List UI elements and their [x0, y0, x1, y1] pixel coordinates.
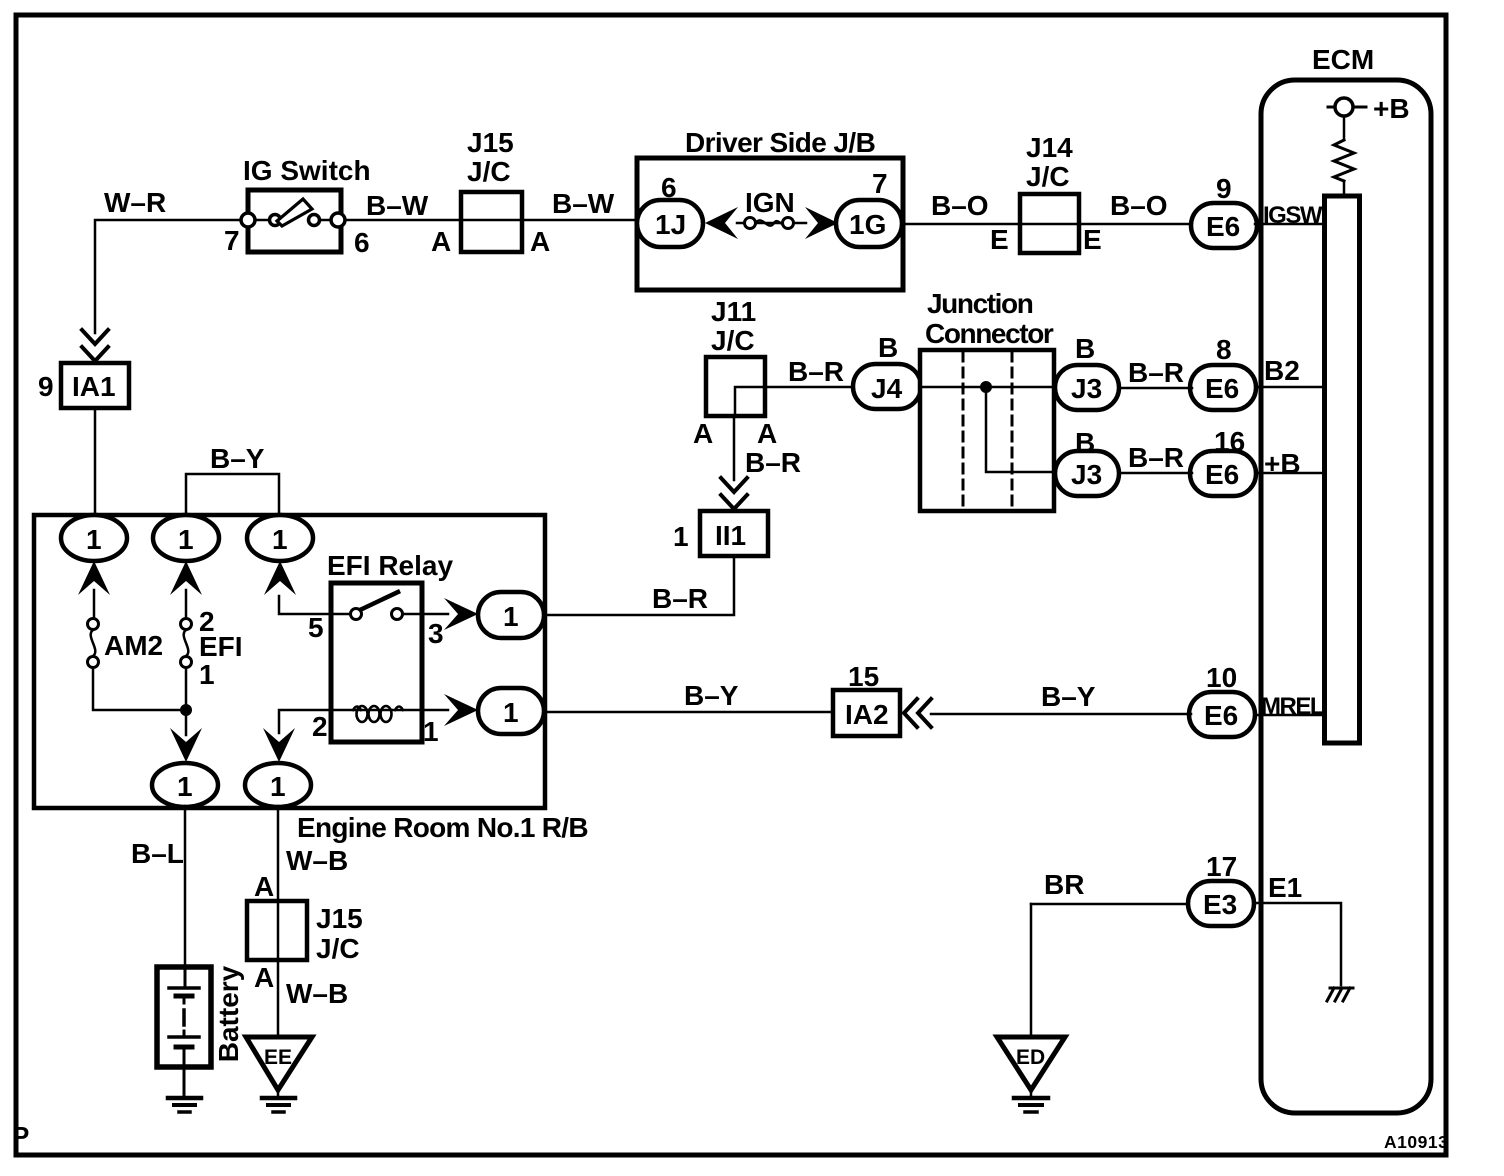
arrow right at 1G — [805, 207, 838, 239]
wire B-O 1G to J14 to E6 — [902, 223, 1192, 226]
connector oval 1 bottom-left — [152, 763, 218, 807]
connector oval 1 top-left — [61, 515, 127, 561]
wire through J15 bottom — [277, 901, 280, 960]
svg-text:B–Y: B–Y — [684, 680, 739, 711]
svg-text:1: 1 — [673, 521, 689, 552]
fuse IGN circle right — [783, 218, 794, 229]
svg-text:15: 15 — [848, 661, 879, 692]
svg-text:1: 1 — [503, 697, 519, 728]
svg-text:IGSW: IGSW — [1263, 202, 1323, 229]
relay switch wire right — [403, 613, 420, 616]
junction node dot — [180, 704, 192, 716]
svg-text:B–R: B–R — [652, 583, 708, 614]
G-TOPEND — [997, 44, 1431, 1113]
junction node dot — [980, 381, 992, 393]
wire BR from E3 to ED drop — [1031, 903, 1188, 906]
svg-text:B–R: B–R — [788, 356, 844, 387]
svg-text:B: B — [1075, 333, 1095, 364]
svg-text:E6: E6 — [1204, 700, 1238, 731]
battery plate long 1 — [169, 986, 199, 990]
arrow up into oval relay — [264, 561, 296, 595]
svg-text:6: 6 — [354, 227, 370, 258]
svg-text:B–W: B–W — [552, 188, 615, 219]
connector J4 oval — [853, 364, 921, 409]
Engine Room No.1 R/B box — [34, 515, 545, 808]
Junction Connector box — [920, 350, 1054, 511]
IG switch terminal 6 circle — [331, 213, 345, 227]
svg-text:B–O: B–O — [931, 190, 989, 221]
svg-text:AM2: AM2 — [104, 630, 163, 661]
wire AM2 bottom to junction — [93, 668, 186, 710]
connector oval 1 bottom-right — [245, 763, 311, 807]
connector oval 1 right-top — [478, 592, 544, 638]
connector E3 pin 17 oval — [1188, 881, 1254, 926]
svg-text:J4: J4 — [871, 373, 903, 404]
svg-text:J14: J14 — [1026, 132, 1073, 163]
svg-text:IA2: IA2 — [845, 699, 889, 730]
svg-text:A: A — [530, 226, 550, 257]
svg-text:ED: ED — [1016, 1046, 1045, 1069]
svg-text:1: 1 — [503, 601, 519, 632]
svg-text:1: 1 — [178, 524, 194, 555]
wire B-Y to E6-10 — [931, 713, 1191, 716]
fuse EFI circle bottom — [181, 657, 192, 668]
wire E1 to internal ground — [1254, 903, 1341, 985]
svg-text:P: P — [12, 1121, 29, 1151]
svg-text:7: 7 — [872, 168, 888, 199]
chassis ground hatch inside ECM — [1327, 988, 1353, 1001]
svg-text:B–O: B–O — [1110, 190, 1168, 221]
connector J3 bottom oval — [1055, 451, 1119, 496]
svg-text:3: 3 — [428, 618, 444, 649]
svg-text:Driver Side J/B: Driver Side J/B — [685, 127, 875, 158]
svg-text:B–R: B–R — [745, 447, 801, 478]
svg-text:B–W: B–W — [366, 190, 429, 221]
resistor inside ECM — [1334, 140, 1354, 181]
svg-text:E1: E1 — [1268, 872, 1302, 903]
connector 1G oval — [836, 200, 902, 247]
svg-text:B–Y: B–Y — [1041, 681, 1096, 712]
svg-text:B: B — [1075, 427, 1095, 458]
svg-text:J15: J15 — [316, 903, 363, 934]
svg-text:E6: E6 — [1205, 373, 1239, 404]
wire resistor to bar — [1343, 181, 1346, 196]
svg-text:B–L: B–L — [131, 838, 184, 869]
connector J3 top oval — [1055, 365, 1119, 410]
J15 J/C box (bottom) — [247, 901, 307, 960]
svg-text:A: A — [254, 871, 274, 902]
svg-text:E3: E3 — [1203, 889, 1237, 920]
svg-text:17: 17 — [1206, 851, 1237, 882]
svg-text:B–R: B–R — [1128, 357, 1184, 388]
fuse AM2 wire top — [93, 590, 96, 619]
ground bars under EE — [277, 1090, 280, 1096]
wire +B16 pin — [1255, 472, 1322, 475]
connector II1 box — [700, 511, 768, 556]
wire pin3 to arrow — [422, 613, 448, 616]
connector E6 pin 9 oval — [1191, 203, 1257, 248]
wire B-L oval to battery — [184, 806, 187, 968]
svg-text:W–B: W–B — [286, 845, 348, 876]
connector oval 1 top-mid — [153, 515, 219, 561]
svg-text:Junction: Junction — [927, 288, 1033, 319]
svg-text:J/C: J/C — [711, 325, 755, 356]
svg-text:2: 2 — [312, 711, 328, 742]
wire B-R J3 to E6-16 — [1119, 472, 1192, 475]
battery internal top wire — [184, 967, 187, 986]
wire EFI bottom through junction to arrow — [185, 668, 188, 735]
fuse AM2 squiggle — [91, 630, 96, 656]
svg-text:1: 1 — [177, 771, 193, 802]
relay coil — [333, 709, 420, 712]
wire through J15 — [462, 219, 638, 222]
+B terminal circle — [1328, 106, 1366, 109]
wire II1 to R/B oval — [546, 556, 734, 615]
svg-text:IG Switch: IG Switch — [243, 155, 371, 186]
svg-text:J11: J11 — [711, 296, 756, 327]
arrow right into oval pin3 — [444, 598, 478, 630]
dashed partition right — [1011, 352, 1014, 509]
svg-text:B2: B2 — [1264, 355, 1300, 386]
wire down to ED — [1030, 904, 1033, 1037]
wire IA1 to R/B box — [94, 408, 97, 516]
svg-text:A: A — [254, 962, 274, 993]
svg-text:E: E — [990, 224, 1009, 255]
svg-text:16: 16 — [1214, 426, 1245, 457]
fuse EFI wire top — [185, 590, 188, 619]
fuse AM2 circle top — [88, 619, 99, 630]
G-LEFTEND — [131, 806, 363, 1112]
battery plate short 1 — [176, 994, 192, 999]
battery dashed cell — [182, 1010, 186, 1025]
connector IA2 box — [833, 690, 900, 736]
dashed partition left — [962, 352, 965, 509]
arrow up into oval AM2 — [78, 561, 110, 595]
svg-text:1G: 1G — [849, 209, 886, 240]
svg-text:7: 7 — [224, 225, 240, 256]
ground triangle ED — [997, 1037, 1065, 1090]
svg-text:J/C: J/C — [1026, 161, 1070, 192]
svg-text:A: A — [431, 226, 451, 257]
fuse EFI circle top — [181, 619, 192, 630]
G-MIDEND — [34, 443, 588, 843]
svg-text:W–B: W–B — [286, 978, 348, 1009]
svg-text:IGN: IGN — [745, 187, 795, 218]
connector E6 pin 16 oval — [1190, 451, 1256, 496]
wire B-W switch to J15 — [345, 219, 462, 222]
svg-text:6: 6 — [661, 172, 677, 203]
IG switch inner contact circle left — [270, 215, 281, 226]
fuse IGN wire — [737, 222, 806, 225]
svg-text:MREL: MREL — [1261, 693, 1324, 720]
svg-text:EFI: EFI — [199, 631, 243, 662]
Driver Side J/B box — [637, 158, 903, 290]
arrow right into oval pin1 — [444, 694, 478, 726]
wire W-R from IG switch to IA1 drop — [95, 220, 248, 333]
wire +B to resistor — [1343, 116, 1346, 140]
svg-text:W–R: W–R — [104, 187, 166, 218]
wire pin1 to arrow — [422, 709, 448, 712]
svg-text:10: 10 — [1206, 662, 1237, 693]
svg-text:E6: E6 — [1205, 459, 1239, 490]
EFI Relay box — [331, 583, 422, 742]
svg-text:J15: J15 — [467, 127, 514, 158]
svg-text:II1: II1 — [715, 520, 746, 551]
battery plate long 2 — [169, 1035, 199, 1039]
arrow down into bottom oval 1 — [170, 728, 202, 762]
svg-text:EE: EE — [264, 1046, 292, 1069]
arrow left at 1J — [705, 207, 738, 239]
wire B-Y R/B to IA2 — [546, 711, 833, 714]
wire junction drop — [986, 387, 1056, 472]
wire relay pin2 to arrow — [279, 710, 332, 733]
ECM internal bar — [1325, 196, 1360, 743]
IG switch wire stubs — [254, 219, 268, 222]
ground triangle EE — [246, 1037, 312, 1090]
svg-text:1: 1 — [423, 716, 439, 747]
chevron arrows above IA1 — [82, 330, 108, 344]
svg-text:1: 1 — [86, 524, 102, 555]
svg-text:Connector: Connector — [925, 318, 1054, 349]
svg-text:J3: J3 — [1071, 459, 1102, 490]
J11 J/C box — [706, 357, 765, 416]
svg-text:BR: BR — [1044, 869, 1084, 900]
battery box — [157, 967, 211, 1067]
svg-text:+B: +B — [1264, 448, 1301, 479]
svg-text:9: 9 — [1216, 173, 1232, 204]
ECM case — [1261, 80, 1431, 1113]
svg-text:1J: 1J — [655, 209, 686, 240]
wire B2 pin — [1255, 386, 1322, 389]
wire IGSW pin — [1255, 223, 1322, 226]
wire MREL pin — [1255, 714, 1322, 717]
svg-text:1: 1 — [270, 771, 286, 802]
svg-text:B–R: B–R — [1128, 442, 1184, 473]
fuse EFI squiggle — [184, 630, 189, 656]
battery plate short 2 — [176, 1045, 192, 1050]
relay switch contact left — [351, 609, 362, 620]
connector E6 pin 10 oval — [1189, 692, 1255, 737]
svg-text:1: 1 — [199, 659, 215, 690]
IG switch inner contact circle right — [309, 215, 320, 226]
connector oval 1 right-bottom — [478, 688, 544, 734]
wire W-B oval to J15 to EE — [277, 806, 280, 1037]
wire relay pin5 to oval — [279, 596, 332, 614]
chevron arrows right of IA2 — [904, 699, 917, 727]
svg-text:J/C: J/C — [467, 156, 511, 187]
svg-text:IA1: IA1 — [72, 371, 116, 402]
svg-text:E6: E6 — [1206, 211, 1240, 242]
arrow up into oval EFI — [170, 561, 202, 595]
svg-text:9: 9 — [38, 371, 54, 402]
ground bars under ED — [1014, 1096, 1048, 1101]
wire B-R J11 to J4 — [765, 386, 855, 389]
wire B-R J3 to E6-8 — [1119, 387, 1192, 390]
svg-text:+B: +B — [1373, 93, 1410, 124]
connector 1J oval — [637, 200, 703, 247]
IG Switch box — [248, 190, 341, 252]
svg-text:A10913: A10913 — [1384, 1132, 1448, 1152]
wire J11 down to II1 — [733, 416, 736, 480]
J14 J/C box — [1020, 194, 1079, 253]
ground bars under battery — [168, 1096, 201, 1101]
IG switch terminal 7 circle — [241, 213, 255, 227]
svg-text:8: 8 — [1216, 334, 1232, 365]
fuse IGN squiggle — [756, 220, 786, 225]
connector oval 1 top-right — [247, 515, 313, 561]
svg-text:J/C: J/C — [316, 933, 360, 964]
wire J4 through junction to J3 top — [921, 386, 1056, 389]
fuse AM2 circle bottom — [88, 657, 99, 668]
wire B-Y bracket — [186, 474, 279, 515]
svg-text:5: 5 — [308, 612, 324, 643]
connector IA1 box — [61, 363, 129, 408]
connector E6 pin 8 oval — [1190, 365, 1256, 410]
svg-text:Battery: Battery — [213, 965, 244, 1062]
G-ECMEND — [546, 288, 1192, 736]
relay switch wire left — [333, 613, 351, 616]
svg-text:1: 1 — [272, 524, 288, 555]
chevron arrows above II1 — [721, 478, 747, 492]
svg-text:Engine Room No.1 R/B: Engine Room No.1 R/B — [297, 812, 588, 843]
battery bottom wire — [183, 1047, 186, 1096]
relay switch blade — [362, 592, 398, 609]
svg-text:A: A — [693, 418, 713, 449]
J11 internal step wires — [735, 387, 765, 416]
svg-text:J3: J3 — [1071, 373, 1102, 404]
relay switch contact right — [392, 609, 403, 620]
IG switch blade — [277, 199, 312, 226]
fuse IGN circle left — [745, 218, 756, 229]
svg-text:B: B — [878, 332, 898, 363]
svg-text:B–Y: B–Y — [210, 443, 265, 474]
J15 J/C box (top) — [461, 192, 522, 252]
arrow down into bottom oval 2 — [263, 728, 295, 762]
svg-text:E: E — [1083, 224, 1102, 255]
svg-text:EFI Relay: EFI Relay — [327, 550, 453, 581]
svg-text:ECM: ECM — [1312, 44, 1374, 75]
svg-text:A: A — [757, 418, 777, 449]
